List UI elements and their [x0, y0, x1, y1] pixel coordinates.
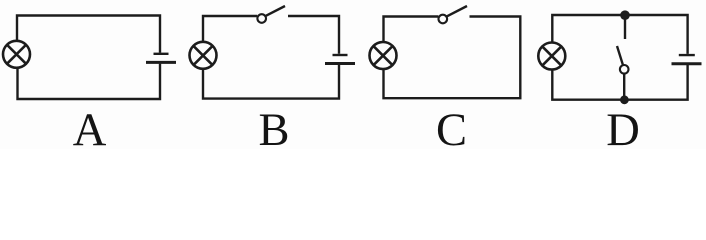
svg-text:C: C [436, 105, 467, 149]
svg-text:D: D [606, 105, 640, 149]
svg-text:B: B [258, 105, 289, 149]
svg-text:A: A [73, 105, 107, 149]
